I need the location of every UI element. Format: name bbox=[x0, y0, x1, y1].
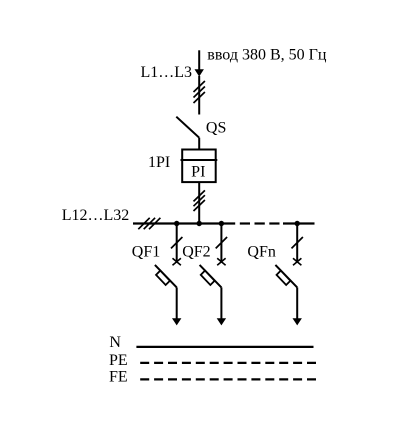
arrowhead: power flow direction into installation bbox=[195, 69, 204, 76]
wire: QF2 to outgoing arrow bbox=[220, 287, 222, 319]
wire: bus to QF1 contact bbox=[176, 224, 178, 262]
wire: QFn to outgoing arrow bbox=[296, 287, 298, 319]
contact cross of QF1 bbox=[173, 258, 181, 265]
svg-text:FE: FE bbox=[109, 369, 128, 386]
three-phase slash marks between meter and bus bbox=[194, 190, 205, 211]
arrowhead: QF1 outgoing feeder bbox=[172, 318, 181, 325]
protective earth PE line (dashed) bbox=[140, 362, 316, 364]
release rectangle of QF1 bbox=[156, 271, 170, 285]
svg-text:L1…L3: L1…L3 bbox=[141, 64, 193, 81]
circuit breaker QF1 bbox=[155, 224, 183, 326]
arrowhead: QFn outgoing feeder bbox=[293, 318, 302, 325]
svg-text:QF2: QF2 bbox=[182, 244, 210, 261]
svg-text:PI: PI bbox=[191, 164, 205, 181]
wire: bus to QF2 contact bbox=[220, 224, 222, 262]
svg-text:PE: PE bbox=[109, 352, 128, 369]
phase slash on QF1 feeder bbox=[171, 237, 182, 248]
bus solid right section bbox=[283, 222, 315, 224]
svg-text:N: N bbox=[109, 334, 121, 351]
wire: QS to meter 1PI bbox=[198, 138, 200, 150]
svg-text:L12…L32: L12…L32 bbox=[62, 207, 130, 224]
junction dot: bus / incoming bbox=[197, 221, 202, 226]
arrowhead: QF2 outgoing feeder bbox=[217, 318, 226, 325]
three-phase slash marks on incoming line bbox=[194, 81, 205, 103]
three-phase slash marks on bus bbox=[138, 218, 160, 229]
phase slash on QFn feeder bbox=[292, 237, 303, 248]
meter 1PI box bbox=[182, 150, 216, 183]
svg-text:QFn: QFn bbox=[247, 244, 275, 261]
blade of QF1 bbox=[155, 265, 177, 288]
release rectangle of QF2 bbox=[201, 271, 215, 285]
bus L12…L32 solid left section bbox=[133, 222, 235, 224]
release rectangle of QFn bbox=[277, 271, 291, 285]
phase slash on QF2 feeder bbox=[216, 237, 227, 248]
meter 1PI divider line bbox=[181, 159, 218, 161]
wire: QF1 to outgoing arrow bbox=[176, 287, 178, 319]
svg-text:1PI: 1PI bbox=[148, 154, 170, 171]
functional earth FE line (dashed) bbox=[140, 378, 316, 380]
bus dashed continuation bbox=[240, 222, 280, 224]
circuit breaker QFn bbox=[275, 224, 303, 326]
wire: meter to bus bbox=[198, 182, 200, 223]
svg-text:ввод 380 В, 50 Гц: ввод 380 В, 50 Гц bbox=[207, 47, 327, 64]
wire: incoming supply drop above arrow bbox=[198, 50, 200, 70]
junction dot: bus / QF2 bbox=[219, 221, 224, 226]
junction dot: bus / QFn bbox=[295, 221, 300, 226]
blade of QF2 bbox=[200, 265, 222, 288]
contact cross of QF2 bbox=[217, 258, 225, 265]
svg-text:QS: QS bbox=[206, 120, 226, 137]
contact cross of QFn bbox=[293, 258, 301, 265]
neutral conductor N line bbox=[136, 346, 313, 348]
junction dot: bus / QF1 bbox=[174, 221, 179, 226]
disconnector QS blade bbox=[176, 117, 199, 138]
circuit breaker QF2 bbox=[200, 224, 228, 326]
blade of QFn bbox=[275, 265, 297, 288]
wire: arrow to disconnector QS bbox=[198, 76, 200, 115]
wire: bus to QFn contact bbox=[296, 224, 298, 262]
svg-text:QF1: QF1 bbox=[132, 244, 160, 261]
